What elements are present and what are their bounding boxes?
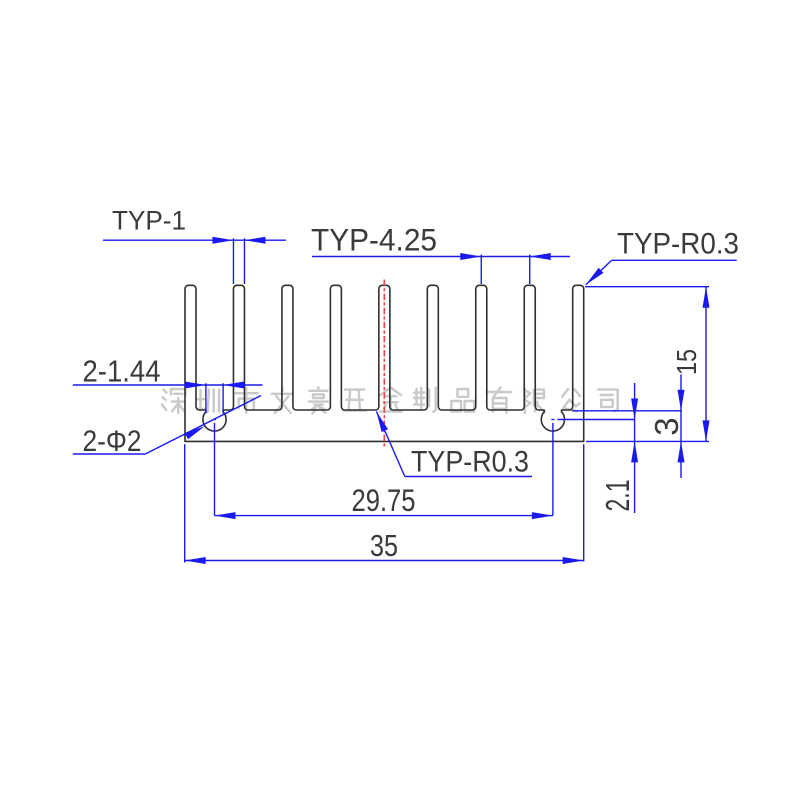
svg-text:2-1.44: 2-1.44 <box>83 355 161 389</box>
svg-text:2-Φ2: 2-Φ2 <box>83 425 142 458</box>
svg-text:2.1: 2.1 <box>599 480 636 512</box>
svg-text:TYP-1: TYP-1 <box>112 206 186 236</box>
svg-text:35: 35 <box>370 529 398 563</box>
svg-text:TYP-4.25: TYP-4.25 <box>311 222 437 258</box>
svg-text:3: 3 <box>648 417 685 435</box>
svg-text:TYP-R0.3: TYP-R0.3 <box>411 446 529 479</box>
svg-text:TYP-R0.3: TYP-R0.3 <box>617 228 739 261</box>
svg-text:29.75: 29.75 <box>352 482 416 518</box>
svg-text:15: 15 <box>671 349 702 375</box>
